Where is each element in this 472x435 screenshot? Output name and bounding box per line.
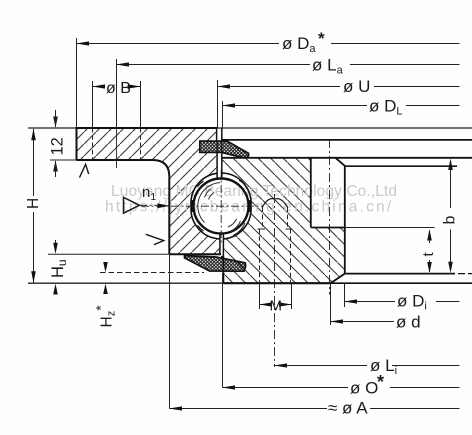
- svg-text:ø Da: ø Da: [282, 34, 316, 55]
- flange bottom: [50, 159, 77, 161]
- ext line O: [222, 273, 224, 388]
- ext line Da: [76, 38, 78, 128]
- dim Li: [275, 365, 368, 367]
- ext line d: [330, 284, 332, 325]
- ext line A: [169, 254, 171, 408]
- svg-text:t: t: [420, 252, 437, 257]
- svg-text:ø d: ø d: [396, 313, 421, 332]
- ext line Di: [344, 284, 346, 307]
- dim b line: [450, 163, 452, 208]
- svg-text:ø O: ø O: [350, 379, 378, 398]
- dim O: [223, 387, 349, 389]
- flange inner fillet: [153, 160, 170, 177]
- surface finish mark flange bottom: [80, 164, 89, 177]
- ball shading arcs upper-left: [205, 189, 212, 198]
- ball centerline vertical: [220, 170, 222, 243]
- dim A: [170, 408, 328, 410]
- dim Hz arrows: [103, 262, 108, 272]
- svg-text:ø Di: ø Di: [397, 292, 427, 313]
- outer ring bottom face: [48, 253, 169, 255]
- dim Hu arrows: [53, 243, 58, 254]
- svg-text:Hu: Hu: [49, 259, 69, 278]
- tooth bottom chamfer: [331, 274, 345, 284]
- inner ring seal step: [221, 256, 223, 258]
- flange left edge: [76, 127, 78, 160]
- inner ring section (right) hatched: [222, 158, 345, 283]
- dim d: [331, 321, 395, 323]
- surface finish mark bore: [146, 234, 164, 244]
- tooth top chamfer: [336, 158, 345, 166]
- svg-text:*: *: [318, 29, 325, 48]
- inner ring recess floor / tooth top line: [222, 157, 472, 159]
- upper seal: [200, 141, 249, 158]
- ext line La: [116, 59, 118, 128]
- dim B: [93, 86, 105, 88]
- ball centerline horizontal: [141, 205, 263, 207]
- ext line DL: [222, 101, 224, 128]
- flange bolt hole centerline: [116, 59, 118, 168]
- dim M: [260, 304, 271, 306]
- n1 arrow dash-dot: [140, 204, 158, 206]
- seal pin lines through upper seal: [217, 141, 222, 152]
- dim Da: [77, 43, 280, 45]
- svg-text:≈ ø A: ≈ ø A: [328, 399, 368, 418]
- dim H line: [33, 129, 35, 282]
- dim DL: [223, 105, 368, 107]
- svg-text:M: M: [270, 298, 283, 315]
- ball shading arcs lower-right: [228, 219, 237, 227]
- inner ring left bottom edge: [222, 257, 224, 284]
- svg-text:Hz*: Hz*: [93, 305, 118, 328]
- tooth bottom line: [345, 273, 455, 275]
- flange right edge at seal slot: [216, 128, 218, 141]
- svg-text:ø B: ø B: [106, 80, 131, 97]
- flange bolt hole hidden lines: [92, 128, 94, 160]
- raceway contact arcs: [198, 181, 204, 187]
- tooth root edge: [344, 166, 346, 273]
- tapped hole centerline: [274, 194, 276, 367]
- dashed seal lip line Hz: [100, 272, 204, 274]
- ball body fill: [194, 179, 249, 234]
- lower neck right line: [222, 235, 224, 257]
- n1 arrowhead: [158, 203, 170, 208]
- tooth second top line: [345, 165, 457, 167]
- H arrows: [31, 129, 36, 141]
- svg-text:ø DL: ø DL: [369, 97, 403, 118]
- inner ring tapped hole M: thread lines: [259, 229, 261, 283]
- seal pin line through lower seal: [222, 257, 224, 263]
- outer ring inner surface: [168, 177, 170, 255]
- upper neck right line: [221, 152, 223, 177]
- svg-text:*: *: [377, 372, 384, 392]
- upper neck left line: [216, 152, 218, 177]
- H label: [25, 196, 42, 212]
- gear pitch centerline: [329, 139, 331, 295]
- ext line U: [217, 80, 219, 128]
- dim t line: [429, 231, 431, 244]
- tapped hole drill cone: [262, 199, 288, 208]
- outer ring section (left, with top flange) hatched: [77, 128, 220, 254]
- svg-text:H: H: [25, 198, 42, 209]
- svg-text:ø U: ø U: [343, 77, 370, 96]
- tapped hole thread step dashes: [258, 228, 293, 230]
- dim La: [117, 64, 311, 66]
- raceway groove outline right side: [222, 173, 251, 239]
- raceway groove outline left side: [191, 173, 220, 239]
- inner ring step horizontal: [311, 227, 345, 229]
- raceway cusp contact marks: [191, 200, 194, 212]
- svg-text:12: 12: [49, 137, 67, 155]
- lower seal: [185, 256, 246, 272]
- dim 12 arrows: [53, 117, 58, 128]
- lower neck left line: [219, 235, 221, 255]
- raceway groove void: [191, 173, 251, 239]
- ball inner left arc: [198, 183, 220, 223]
- top face line: [28, 127, 472, 129]
- dim Di: [345, 301, 396, 303]
- inner ring top face line: [221, 139, 472, 141]
- bottom face line: [28, 282, 472, 284]
- ball: [194, 179, 249, 234]
- ext lines B: [93, 81, 141, 128]
- svg-text:ø La: ø La: [312, 56, 344, 77]
- n1 rotation triangle: [124, 197, 140, 213]
- t reference thin line: [345, 227, 435, 229]
- svg-text:b: b: [442, 216, 459, 225]
- inner ring step vertical: [310, 158, 312, 228]
- dim U: [218, 86, 341, 88]
- ext lines M: [260, 284, 292, 309]
